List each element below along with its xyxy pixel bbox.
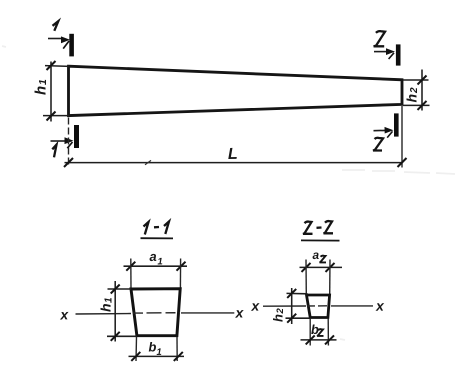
section bar 2 top	[396, 44, 401, 65]
h1 dimension extension line bottom	[43, 115, 70, 117]
section digit 1 (top left)	[53, 21, 59, 31]
b2 extension line left	[309, 319, 311, 346]
label h2 (rotated)	[403, 87, 420, 103]
section digit 2 (bottom right)	[373, 138, 383, 151]
h2 dimension line (2-2)	[291, 288, 293, 324]
L extension line right	[401, 106, 403, 168]
b2 tick left	[306, 335, 315, 344]
title 1-1 underline	[141, 237, 174, 239]
svg-text:1: 1	[156, 347, 162, 358]
title 2-2	[303, 221, 333, 234]
b2 extension line right	[327, 319, 329, 346]
h2 tick top	[418, 76, 427, 85]
label h1 (rotated)	[32, 79, 49, 95]
svg-text:x: x	[59, 306, 69, 322]
h2 extension line top	[403, 79, 429, 81]
svg-text:x: x	[375, 298, 385, 314]
a1 extension line right	[179, 259, 181, 290]
a1 extension line left	[130, 259, 132, 290]
h1 extension line top (1-1)	[108, 288, 132, 290]
x axis 1-1 centerline dashes	[133, 312, 180, 314]
a1 dimension line	[124, 265, 188, 267]
b1 tick right	[174, 352, 183, 361]
L dimension line	[65, 162, 403, 164]
svg-text:h: h	[403, 94, 419, 103]
a2 dimension line	[300, 266, 343, 268]
x axis 1-1 right segment	[181, 312, 234, 314]
x axis 2-2 right segment	[331, 305, 373, 307]
section bar 2 bottom	[394, 113, 399, 136]
a2 extension line left	[305, 260, 307, 296]
h1 tick bottom (1-1)	[111, 332, 120, 341]
svg-text:x: x	[250, 298, 260, 314]
title 1-1	[144, 222, 170, 235]
x axis 1-1 left segment	[76, 313, 132, 316]
svg-text:1: 1	[104, 297, 115, 303]
h2 extension line bottom	[403, 104, 430, 106]
h1 tick bottom	[47, 112, 56, 121]
section arrow 1 bottom	[51, 140, 66, 142]
svg-text:x: x	[234, 305, 244, 321]
section 1-1 trapezoid	[131, 289, 180, 336]
svg-text:2: 2	[275, 308, 286, 315]
svg-text:L: L	[228, 146, 238, 163]
svg-text:2: 2	[409, 87, 420, 94]
svg-text:a: a	[149, 249, 157, 264]
label h2 rotated (2-2)	[270, 308, 286, 323]
b1 tick left	[131, 352, 140, 361]
section bar 1 bottom	[74, 125, 79, 148]
scan noise	[2, 46, 455, 340]
h2 tick bottom (2-2)	[287, 314, 296, 323]
section digit 1 (bottom left)	[52, 145, 56, 158]
svg-text:h: h	[98, 303, 114, 312]
b1 dimension line	[129, 355, 185, 357]
h2 tick top (2-2)	[287, 289, 296, 298]
section digit 2 (top right)	[374, 31, 385, 46]
svg-text:h: h	[270, 314, 285, 322]
section 2-2 trapezoid	[307, 295, 330, 318]
section arrow 2 top	[374, 51, 387, 53]
h2 tick bottom	[418, 101, 427, 110]
section arrow 1 top	[48, 38, 62, 40]
a2 tick left	[302, 263, 311, 272]
h1 dimension extension line top	[45, 65, 70, 68]
h2 extension line bottom (2-2)	[286, 317, 311, 319]
svg-text:h: h	[32, 86, 49, 95]
x axis 2-2 centerline dashes	[307, 305, 330, 307]
h2 dimension line	[421, 70, 423, 111]
L mid tick	[145, 160, 151, 164]
b1 extension line right	[176, 337, 178, 361]
a1 tick right	[177, 262, 186, 271]
a2 extension line right	[329, 260, 331, 296]
b1 extension line left	[135, 337, 138, 361]
svg-text:1: 1	[37, 79, 49, 85]
h1 dimension line (1-1)	[114, 281, 116, 342]
title 2-2 underline	[301, 239, 340, 241]
h2 extension line top (2-2)	[287, 292, 308, 294]
label h1 rotated (1-1)	[98, 297, 115, 312]
h1 tick top	[47, 61, 56, 70]
b2 tick right	[325, 335, 334, 344]
a2 tick right	[326, 263, 335, 272]
h1 tick top (1-1)	[111, 285, 120, 294]
L tick left	[64, 158, 73, 167]
section arrow 2 bottom	[374, 129, 386, 131]
beam outline (tapered elevation)	[69, 66, 403, 115]
section bar 1 top	[69, 34, 74, 57]
x axis 2-2 left segment	[263, 305, 306, 307]
h1 extension line bottom (1-1)	[107, 335, 137, 337]
svg-text:a: a	[312, 248, 319, 262]
h1 dimension line	[50, 62, 52, 122]
L tick right	[398, 158, 407, 167]
b2 dimension line	[301, 339, 337, 341]
svg-text:b: b	[148, 339, 156, 354]
a1 tick left	[126, 262, 135, 271]
L extension line left	[68, 118, 70, 168]
